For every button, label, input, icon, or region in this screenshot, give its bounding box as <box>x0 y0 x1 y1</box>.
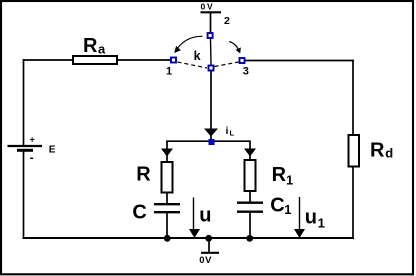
svg-text:k: k <box>194 49 201 63</box>
capacitor C bottom plate <box>154 211 180 213</box>
svg-text:R: R <box>83 35 98 57</box>
svg-text:C: C <box>132 201 146 223</box>
wire right vertical lower (Rd to bottom rail) <box>352 167 354 238</box>
svg-text:C: C <box>270 195 284 217</box>
battery E minus plate <box>17 149 33 152</box>
junction node (filled blue square) <box>209 139 215 145</box>
svg-text:R: R <box>370 140 385 162</box>
switch throw arc toward node 3 <box>229 42 238 50</box>
svg-text:u: u <box>305 207 317 229</box>
svg-text:i: i <box>226 125 229 137</box>
battery E plus plate <box>8 145 43 147</box>
wire R to capacitor C <box>166 193 168 204</box>
wire left vertical upper (battery + to Ra) <box>23 60 25 146</box>
svg-text:1: 1 <box>318 216 325 231</box>
svg-text:3: 3 <box>243 66 249 78</box>
svg-text:-: - <box>30 151 34 165</box>
switch throw arc toward node 1 <box>178 36 203 48</box>
ground junction dot on bottom rail <box>205 235 212 242</box>
wire Ra to node 1 <box>117 59 171 61</box>
arrowhead of right throw arc <box>236 47 241 53</box>
svg-text:d: d <box>385 146 393 161</box>
wire center horizontal (R branch to R1 branch) <box>167 140 250 142</box>
wire right vertical upper (to Rd) <box>352 61 354 136</box>
node 3 (switch contact, open blue square) <box>240 58 245 63</box>
wire top-left (corner to Ra) <box>24 59 74 61</box>
svg-text:0V: 0V <box>201 1 215 11</box>
wire R1 branch upper <box>249 142 251 160</box>
voltage arrow u1 head <box>294 229 305 238</box>
node 1 (switch contact, open blue square) <box>171 58 176 63</box>
switch pivot (open blue square) <box>209 66 214 71</box>
svg-text:1: 1 <box>284 202 291 217</box>
resistor R <box>162 162 173 193</box>
svg-text:u: u <box>199 205 211 227</box>
branch arrowhead into R1 <box>244 149 256 157</box>
capacitor C1 bottom plate <box>237 211 263 213</box>
voltage arrow u line <box>193 198 195 230</box>
ground 0V bar bottom <box>201 252 219 254</box>
capacitor C1 top plate <box>237 202 263 204</box>
voltage arrow u head <box>189 229 200 238</box>
capacitor C top plate <box>154 203 180 205</box>
svg-text:0V: 0V <box>199 255 212 266</box>
svg-text:1: 1 <box>286 172 293 187</box>
junction dot R1/C1 branch to bottom rail <box>246 235 253 242</box>
dashed throw position to node 1 <box>178 62 208 68</box>
svg-text:1: 1 <box>166 66 172 78</box>
wire switch pivot down to node iL junction <box>210 71 212 142</box>
wire R1 to capacitor C1 <box>249 192 251 202</box>
wire bottom rail <box>24 237 354 239</box>
svg-text:E: E <box>49 145 56 156</box>
wire node 3 to right corner <box>246 60 354 62</box>
svg-text:R: R <box>136 163 151 185</box>
dashed throw position to node 3 <box>215 62 239 67</box>
svg-text:+: + <box>30 135 35 145</box>
switch blade (node 2 to pivot) <box>210 39 213 65</box>
node 2 (switch contact, open blue square) <box>208 33 213 38</box>
voltage arrow u1 line <box>299 197 301 229</box>
svg-text:2: 2 <box>224 15 230 27</box>
resistor Ra <box>73 56 117 64</box>
resistor Rd <box>349 135 360 167</box>
0V top rail bar <box>201 11 222 13</box>
wire 0V rail stem to node 2 <box>210 13 212 33</box>
arrowhead of left throw arc <box>174 46 181 53</box>
branch arrowhead into R <box>161 149 173 157</box>
wire R branch upper <box>166 142 168 162</box>
wire C to bottom rail <box>166 213 168 238</box>
wire left vertical lower (battery - to bottom rail) <box>23 151 25 238</box>
svg-text:R: R <box>272 164 287 186</box>
svg-text:a: a <box>98 42 106 57</box>
svg-text:L: L <box>230 129 235 138</box>
wire C1 to bottom rail <box>249 213 251 239</box>
current iL arrowhead <box>204 129 218 137</box>
junction dot R/C branch to bottom rail <box>164 235 171 242</box>
resistor R1 <box>245 160 256 191</box>
wire ground stem bottom <box>208 239 210 252</box>
